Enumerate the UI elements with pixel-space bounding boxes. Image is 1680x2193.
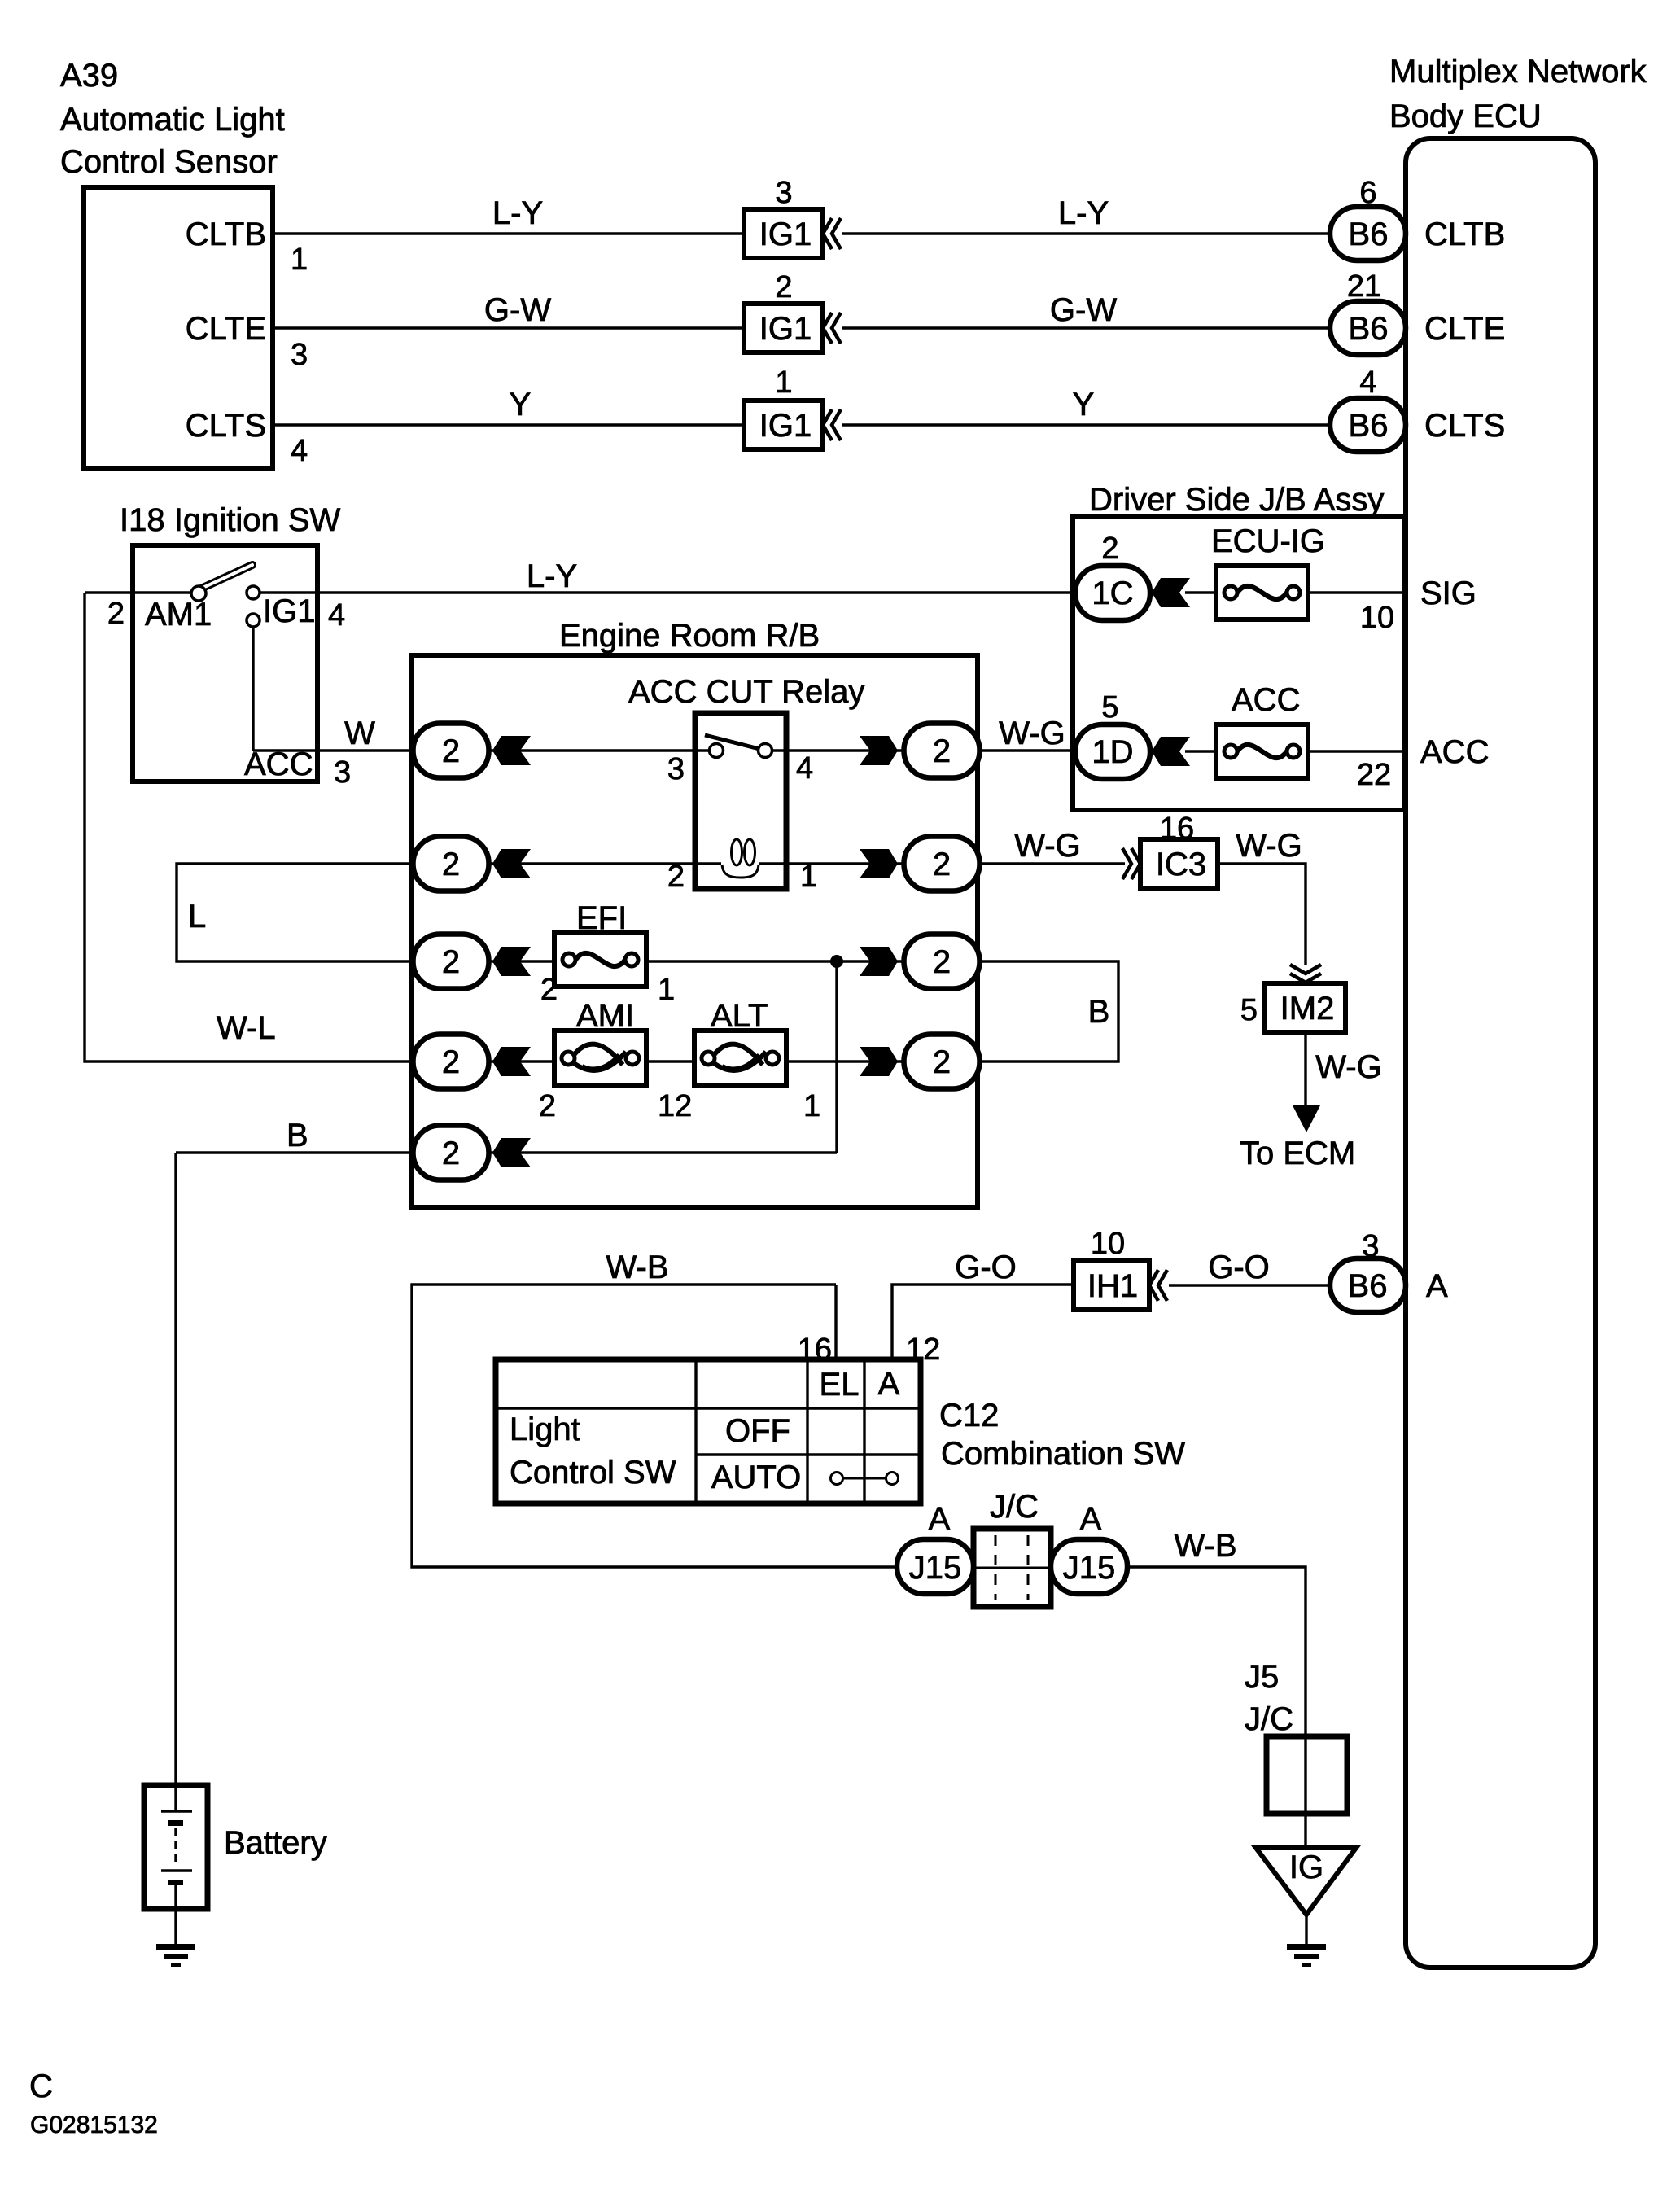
- svg-text:Engine Room R/B: Engine Room R/B: [559, 618, 820, 654]
- svg-text:AMI: AMI: [576, 998, 634, 1034]
- svg-text:1: 1: [775, 365, 792, 400]
- svg-text:Y: Y: [510, 387, 532, 422]
- svg-text:21: 21: [1347, 269, 1381, 304]
- svg-text:ACC CUT Relay: ACC CUT Relay: [628, 674, 864, 710]
- svg-text:1: 1: [291, 243, 308, 277]
- svg-text:3: 3: [1362, 1229, 1379, 1263]
- svg-text:2: 2: [1101, 532, 1118, 566]
- svg-text:EFI: EFI: [576, 900, 627, 936]
- svg-text:W: W: [344, 716, 375, 751]
- svg-text:2: 2: [442, 1136, 460, 1171]
- svg-text:IG1: IG1: [759, 408, 812, 444]
- svg-text:ACC: ACC: [244, 746, 313, 782]
- svg-text:W-L: W-L: [217, 1010, 276, 1046]
- svg-text:Control SW: Control SW: [510, 1455, 676, 1490]
- svg-text:B6: B6: [1348, 1268, 1388, 1304]
- svg-text:J/C: J/C: [1245, 1701, 1293, 1737]
- svg-text:I18 Ignition SW: I18 Ignition SW: [120, 502, 340, 538]
- svg-text:Driver Side J/B Assy: Driver Side J/B Assy: [1089, 482, 1384, 518]
- svg-text:5: 5: [1101, 690, 1118, 724]
- svg-text:22: 22: [1357, 758, 1391, 792]
- svg-text:AUTO: AUTO: [711, 1460, 801, 1495]
- svg-text:1C: 1C: [1092, 576, 1133, 611]
- svg-text:16: 16: [1160, 812, 1194, 846]
- svg-text:2: 2: [933, 733, 951, 769]
- svg-text:B6: B6: [1349, 217, 1389, 252]
- svg-text:IH1: IH1: [1087, 1268, 1138, 1304]
- svg-text:12: 12: [658, 1089, 692, 1123]
- svg-text:IG1: IG1: [759, 311, 812, 347]
- svg-text:C: C: [29, 2068, 53, 2104]
- svg-text:Body ECU: Body ECU: [1389, 98, 1542, 134]
- svg-text:SIG: SIG: [1420, 576, 1477, 611]
- svg-text:Light: Light: [510, 1412, 580, 1447]
- svg-text:L-Y: L-Y: [527, 558, 577, 594]
- svg-text:4: 4: [328, 598, 345, 633]
- svg-text:2: 2: [442, 847, 460, 882]
- svg-text:IM2: IM2: [1280, 991, 1335, 1026]
- svg-text:G02815132: G02815132: [30, 2112, 158, 2138]
- svg-text:J5: J5: [1245, 1659, 1279, 1695]
- svg-text:3: 3: [667, 752, 685, 786]
- svg-text:2: 2: [442, 733, 460, 769]
- svg-text:Battery: Battery: [224, 1825, 327, 1861]
- svg-text:CLTS: CLTS: [186, 408, 266, 444]
- svg-text:IG: IG: [1289, 1849, 1323, 1885]
- svg-text:2: 2: [933, 1044, 951, 1080]
- svg-text:CLTS: CLTS: [1424, 408, 1505, 444]
- svg-text:3: 3: [291, 338, 308, 372]
- svg-text:10: 10: [1360, 601, 1394, 635]
- svg-text:W-G: W-G: [1014, 828, 1080, 864]
- svg-text:CLTB: CLTB: [1424, 217, 1505, 252]
- svg-text:L-Y: L-Y: [492, 195, 543, 231]
- svg-text:J15: J15: [909, 1550, 962, 1586]
- svg-text:G-W: G-W: [484, 292, 551, 328]
- svg-text:L: L: [188, 899, 206, 935]
- svg-text:4: 4: [796, 751, 813, 786]
- svg-text:B: B: [287, 1118, 308, 1153]
- svg-text:W-B: W-B: [1174, 1528, 1236, 1564]
- svg-text:ACC: ACC: [1420, 734, 1489, 770]
- svg-text:5: 5: [1240, 993, 1258, 1027]
- svg-text:2: 2: [442, 944, 460, 980]
- svg-text:ACC: ACC: [1232, 682, 1300, 718]
- svg-text:2: 2: [933, 944, 951, 980]
- svg-text:L-Y: L-Y: [1058, 195, 1109, 231]
- svg-text:J15: J15: [1063, 1550, 1116, 1586]
- svg-text:G-O: G-O: [955, 1250, 1017, 1285]
- svg-text:CLTE: CLTE: [1424, 311, 1505, 347]
- svg-text:C12: C12: [939, 1398, 999, 1434]
- svg-text:G-W: G-W: [1050, 292, 1117, 328]
- svg-text:1: 1: [803, 1089, 820, 1123]
- svg-text:3: 3: [775, 176, 792, 210]
- svg-text:W-G: W-G: [1315, 1049, 1381, 1085]
- svg-text:ALT: ALT: [711, 998, 768, 1034]
- svg-text:B: B: [1088, 994, 1110, 1030]
- svg-text:2: 2: [667, 860, 685, 894]
- svg-text:4: 4: [1359, 365, 1376, 400]
- svg-text:2: 2: [539, 1089, 556, 1123]
- svg-text:CLTB: CLTB: [186, 217, 266, 252]
- svg-text:2: 2: [933, 847, 951, 882]
- svg-text:Control Sensor: Control Sensor: [60, 144, 278, 180]
- svg-text:W-B: W-B: [606, 1250, 668, 1285]
- svg-text:1D: 1D: [1092, 734, 1133, 770]
- svg-text:2: 2: [442, 1044, 460, 1080]
- svg-text:A39: A39: [60, 58, 118, 94]
- svg-text:A: A: [1080, 1501, 1102, 1537]
- svg-text:G-O: G-O: [1208, 1250, 1270, 1285]
- svg-text:A: A: [878, 1366, 900, 1402]
- svg-text:3: 3: [334, 755, 351, 790]
- svg-text:A: A: [929, 1501, 951, 1537]
- svg-text:OFF: OFF: [725, 1413, 790, 1449]
- svg-text:EL: EL: [820, 1367, 860, 1403]
- svg-text:IG1: IG1: [263, 593, 315, 629]
- svg-text:Automatic Light: Automatic Light: [60, 102, 285, 138]
- svg-text:IC3: IC3: [1156, 847, 1206, 882]
- svg-text:B6: B6: [1349, 311, 1389, 347]
- svg-text:W-G: W-G: [999, 716, 1065, 751]
- svg-text:1: 1: [800, 860, 817, 894]
- svg-text:Multiplex Network: Multiplex Network: [1389, 54, 1647, 90]
- svg-text:CLTE: CLTE: [186, 311, 266, 347]
- svg-text:4: 4: [291, 434, 308, 468]
- svg-text:IG1: IG1: [759, 217, 812, 252]
- svg-text:A: A: [1426, 1268, 1448, 1304]
- svg-text:6: 6: [1359, 176, 1376, 210]
- svg-text:2: 2: [540, 973, 558, 1007]
- svg-text:B6: B6: [1349, 408, 1389, 444]
- svg-text:1: 1: [658, 973, 675, 1007]
- svg-text:To ECM: To ECM: [1240, 1136, 1355, 1171]
- svg-text:AM1: AM1: [145, 597, 212, 633]
- svg-text:J/C: J/C: [990, 1489, 1039, 1525]
- svg-text:Combination SW: Combination SW: [941, 1436, 1185, 1472]
- svg-text:10: 10: [1091, 1227, 1125, 1261]
- svg-text:Y: Y: [1073, 387, 1095, 422]
- svg-text:2: 2: [107, 597, 125, 631]
- svg-text:W-G: W-G: [1236, 828, 1302, 864]
- svg-text:2: 2: [775, 270, 792, 304]
- svg-text:ECU-IG: ECU-IG: [1211, 523, 1325, 559]
